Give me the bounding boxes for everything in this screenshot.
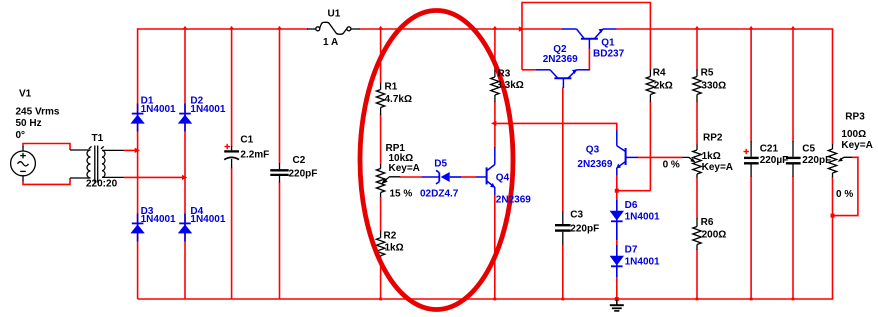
wire C21 branch lower	[750, 176, 752, 299]
svg-text:4.7kΩ: 4.7kΩ	[385, 94, 412, 105]
label R5	[701, 68, 727, 92]
svg-text:1N4001: 1N4001	[625, 212, 660, 223]
svg-text:1N4001: 1N4001	[190, 104, 225, 115]
svg-text:1N4001: 1N4001	[141, 104, 176, 115]
svg-text:R6: R6	[701, 217, 714, 228]
svg-text:1kΩ: 1kΩ	[702, 151, 721, 162]
label D4	[190, 206, 225, 225]
value 15 percent	[390, 188, 413, 199]
capacitor C1 polarized	[224, 144, 239, 168]
value 0 percent RP3	[836, 189, 853, 200]
label C21	[760, 144, 789, 167]
label D1	[141, 96, 176, 116]
potentiometer RP1 10k	[376, 164, 400, 197]
wire C21 branch upper	[750, 29, 752, 142]
svg-text:220pF: 220pF	[802, 155, 831, 166]
wire R6 to ground rail	[696, 250, 698, 300]
wire C3 bottom to ground rail	[562, 244, 564, 299]
wire top rail middle segment	[360, 28, 563, 30]
node junction square R6 bottom	[696, 298, 699, 301]
svg-text:Q3: Q3	[586, 144, 600, 155]
wire C1 branch lower	[231, 168, 233, 300]
label R4	[653, 68, 673, 92]
ground	[610, 300, 624, 311]
wire C2 branch lower	[279, 182, 281, 299]
wire transformer secondary top to bridge	[124, 149, 138, 151]
diode D7 1N4001	[610, 245, 624, 277]
svg-text:T1: T1	[92, 133, 104, 144]
diode D2 1N4001	[178, 104, 192, 132]
wire C5 branch lower	[792, 176, 794, 299]
wire top rail right segment	[616, 28, 833, 30]
node junction arrow C21 top	[748, 26, 753, 30]
node junction arrow C5 top	[790, 26, 795, 30]
svg-text:2N2369: 2N2369	[496, 195, 531, 206]
svg-text:Key=A: Key=A	[841, 140, 872, 151]
svg-text:D6: D6	[625, 200, 638, 211]
svg-text:D7: D7	[625, 245, 638, 256]
wire RP3 branch upper	[832, 29, 834, 145]
svg-text:1kΩ: 1kΩ	[385, 243, 404, 254]
svg-text:1N4001: 1N4001	[625, 257, 660, 268]
wire Q2 base down through C3 node	[562, 88, 564, 213]
wire Q3 emitter to D6	[616, 175, 618, 201]
svg-text:200Ω: 200Ω	[702, 229, 727, 240]
wire R4 bottom down	[649, 102, 651, 191]
svg-text:245 Vrms: 245 Vrms	[16, 107, 60, 118]
diode D3 1N4001	[130, 214, 144, 242]
node junction square R2 bottom	[379, 298, 382, 301]
wire D6 to D7	[616, 240, 618, 246]
svg-text:C5: C5	[802, 144, 815, 155]
label D7	[625, 245, 660, 268]
svg-text:220pF: 220pF	[570, 224, 599, 235]
label C3	[570, 210, 599, 235]
svg-text:R5: R5	[701, 68, 714, 79]
node junction square C21 bottom	[750, 298, 753, 301]
svg-text:220pF: 220pF	[289, 168, 318, 179]
svg-text:Q4: Q4	[496, 173, 510, 184]
node junction arrow D2 top	[182, 26, 187, 30]
label D5	[420, 159, 459, 200]
svg-text:1N4001: 1N4001	[141, 214, 176, 225]
label D3	[141, 206, 176, 225]
svg-text:C3: C3	[570, 210, 583, 221]
svg-text:R1: R1	[385, 82, 398, 93]
wire C2 branch upper	[279, 29, 281, 164]
wire Q3 base to RP2 wiper	[638, 156, 683, 158]
label RP1	[386, 143, 420, 174]
resistor R4 2k	[646, 70, 654, 103]
wire D5 to Q4 base	[461, 176, 477, 178]
label C1	[240, 135, 269, 161]
diode D1 1N4001	[130, 104, 144, 132]
wire R3 bottom to Q4 collector	[494, 102, 496, 148]
transistor Q4 2N2369	[476, 147, 495, 195]
svg-text:0 %: 0 %	[663, 160, 680, 171]
AC source V1	[11, 146, 36, 181]
svg-text:0°: 0°	[16, 130, 26, 141]
zener diode D5 02DZ4.7	[422, 170, 461, 184]
value 220:20	[86, 179, 118, 190]
svg-text:R3: R3	[498, 69, 511, 80]
label V1	[19, 89, 32, 100]
resistor R2 1k	[376, 231, 384, 260]
wire R5 to RP2	[696, 102, 698, 145]
svg-text:2.2mF: 2.2mF	[240, 149, 269, 160]
svg-text:2N2369: 2N2369	[543, 54, 578, 65]
svg-text:2N2369: 2N2369	[577, 159, 612, 170]
svg-text:Key=A: Key=A	[702, 162, 733, 173]
svg-text:D5: D5	[434, 159, 447, 170]
wire source top lead	[23, 144, 70, 151]
wire D7 to ground rail	[616, 277, 618, 300]
node junction arrow C1 top	[229, 26, 234, 30]
wire C5 branch upper	[792, 29, 794, 142]
wire source bottom lead	[23, 178, 70, 184]
svg-text:RP2: RP2	[703, 133, 723, 144]
transformer T1	[70, 146, 124, 183]
wire R5 RP2 R6 chain top	[696, 29, 698, 70]
wire R3 top branch	[494, 29, 496, 70]
label Q2	[543, 44, 578, 65]
label Q4	[496, 173, 531, 206]
node junction arrow C2 top	[277, 26, 282, 30]
svg-text:330Ω: 330Ω	[701, 81, 726, 92]
label Q3	[577, 144, 612, 170]
wire R1 divider chain vertical	[380, 29, 382, 84]
resistor R5 330	[693, 70, 701, 103]
node junction arrow R5 top	[694, 26, 699, 30]
svg-text:100Ω: 100Ω	[841, 129, 866, 140]
svg-text:V1: V1	[19, 89, 32, 100]
value 1 A	[323, 37, 338, 48]
label C2	[289, 155, 318, 180]
capacitor C21 polarized	[744, 141, 759, 177]
wire R4 bottom to Q3 emitter node	[617, 190, 651, 192]
svg-text:R2: R2	[384, 231, 397, 242]
svg-text:C1: C1	[240, 135, 253, 146]
node junction square C3 bottom	[561, 298, 564, 301]
node junction arrow rail at box vertical	[519, 26, 525, 31]
fuse U1	[307, 22, 360, 34]
svg-text:Key=A: Key=A	[389, 163, 420, 174]
svg-text:220µF: 220µF	[760, 155, 789, 166]
node junction arrow Q4 collector node	[491, 121, 496, 126]
wire bottom ground rail	[138, 298, 834, 300]
wire R2 to ground rail	[380, 260, 382, 299]
potentiometer RP2 1k	[682, 145, 701, 178]
wire Q2 emitter to Q1 base	[588, 48, 590, 71]
label RP3	[841, 112, 872, 152]
wire bridge right vertical	[184, 29, 186, 299]
node junction square Q3 emitter node	[615, 189, 619, 193]
label Q1	[593, 38, 625, 60]
label D6	[625, 200, 660, 223]
wire RP3 branch lower	[832, 177, 834, 299]
label D2	[190, 96, 225, 116]
svg-text:Q1: Q1	[601, 38, 615, 49]
svg-text:220:20: 220:20	[86, 179, 118, 190]
resistor R3 3.3k	[491, 70, 499, 102]
label U1	[328, 9, 341, 20]
node junction square RP3 loop	[831, 214, 835, 218]
diode D6 1N4001	[610, 200, 624, 240]
resistor R1 4.7k	[376, 83, 384, 115]
capacitor C3	[555, 212, 571, 245]
label RP2	[702, 133, 733, 174]
label R2	[384, 231, 404, 254]
wire Q4 emitter to ground rail	[494, 194, 496, 299]
node junction square C5 bottom	[792, 298, 795, 301]
svg-text:1N4001: 1N4001	[190, 214, 225, 225]
svg-text:1 A: 1 A	[323, 37, 338, 48]
wire RP1 to R2	[380, 197, 382, 232]
svg-text:U1: U1	[328, 9, 341, 20]
svg-text:RP3: RP3	[845, 112, 865, 123]
wire Q2 collector stub	[522, 69, 536, 71]
diode D4 1N4001	[178, 214, 192, 242]
svg-text:15 %: 15 %	[390, 188, 413, 199]
wire top rail left segment	[138, 28, 308, 30]
node junction arrow R1 top	[378, 26, 383, 30]
node junction square ground node	[615, 297, 619, 301]
svg-text:50 Hz: 50 Hz	[16, 118, 42, 129]
svg-text:C2: C2	[293, 155, 306, 166]
value 0 percent RP2	[663, 160, 680, 171]
svg-text:2kΩ: 2kΩ	[654, 81, 673, 92]
node junction square Q4 emitter bottom	[493, 298, 496, 301]
wire bridge left vertical	[137, 28, 139, 299]
wire RP2 to R6	[696, 177, 698, 219]
wire transformer secondary bottom to bridge	[124, 176, 185, 178]
capacitor C2	[270, 163, 288, 183]
wire R1 to RP1	[380, 115, 382, 165]
label C5	[802, 144, 831, 167]
svg-text:BD237: BD237	[593, 49, 625, 60]
resistor R6 200	[693, 218, 701, 250]
svg-text:0 %: 0 %	[836, 189, 853, 200]
potentiometer RP3 100	[828, 144, 852, 177]
wire RP1 wiper to D5	[400, 176, 422, 178]
transistor Q3 2N2369	[616, 131, 638, 176]
label T1	[92, 133, 104, 144]
node junction arrow transformer top wire	[135, 148, 140, 153]
label R3	[496, 69, 523, 91]
transistor Q1 BD237	[562, 29, 616, 49]
wire top box over Q1 Q2	[522, 3, 650, 70]
svg-text:C21: C21	[760, 144, 779, 155]
svg-text:02DZ4.7: 02DZ4.7	[420, 188, 459, 199]
wire Q4 collector node to Q3 collector horizontal	[493, 123, 617, 131]
wire RP3 wiper short loop	[833, 157, 858, 215]
label R6	[701, 217, 727, 240]
value 245 Vrms 50 Hz 0deg	[16, 107, 60, 142]
label R1	[385, 82, 412, 106]
wire C1 branch upper	[231, 29, 233, 147]
svg-text:3.3kΩ: 3.3kΩ	[496, 80, 523, 91]
capacitor C5	[786, 141, 801, 177]
transistor Q2 2N2369	[536, 69, 589, 88]
node junction arrow R3 top	[492, 26, 497, 30]
annotation red ellipse	[360, 11, 513, 310]
svg-text:R4: R4	[653, 68, 666, 79]
node junction arrow transformer bottom wire	[182, 175, 187, 180]
